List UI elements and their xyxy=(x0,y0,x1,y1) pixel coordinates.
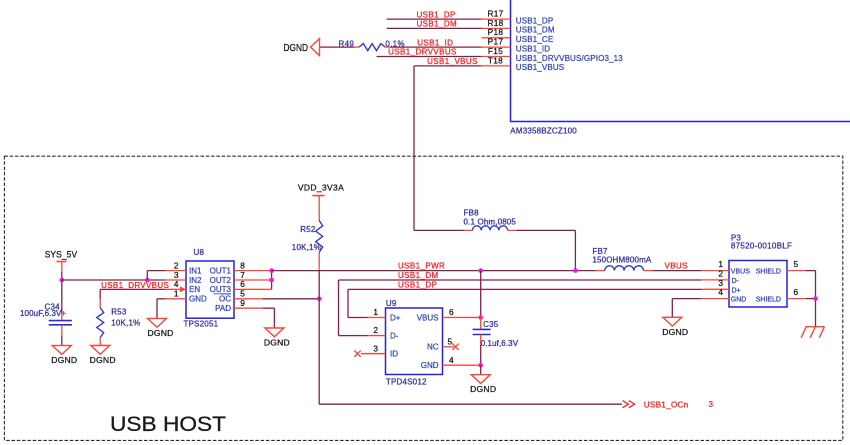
svg-text:2: 2 xyxy=(373,325,378,335)
svg-text:D-: D- xyxy=(390,331,399,340)
svg-text:TPD4S012: TPD4S012 xyxy=(386,377,427,386)
svg-text:USB1_ID: USB1_ID xyxy=(516,44,550,53)
svg-text:USB1_ID: USB1_ID xyxy=(417,38,453,47)
svg-text:0.1uf,6.3V: 0.1uf,6.3V xyxy=(481,339,519,348)
svg-text:USB1_VBUS: USB1_VBUS xyxy=(427,57,478,66)
svg-text:AM3358BZCZ100: AM3358BZCZ100 xyxy=(510,126,577,135)
svg-text:4: 4 xyxy=(449,355,454,365)
svg-text:NC: NC xyxy=(427,343,439,352)
svg-text:FB8: FB8 xyxy=(464,209,480,218)
svg-text:OUT1: OUT1 xyxy=(210,266,232,275)
svg-text:1: 1 xyxy=(373,307,378,317)
svg-text:9: 9 xyxy=(240,298,245,308)
svg-text:0.1%: 0.1% xyxy=(385,39,404,48)
svg-text:DGND: DGND xyxy=(51,355,77,365)
svg-text:SHIELD: SHIELD xyxy=(756,269,781,276)
svg-text:GND: GND xyxy=(189,295,207,304)
svg-text:U8: U8 xyxy=(194,248,205,257)
svg-text:VBUS: VBUS xyxy=(731,269,750,276)
svg-text:0.1 Ohm,0805: 0.1 Ohm,0805 xyxy=(464,217,517,226)
svg-text:USB1_CE: USB1_CE xyxy=(516,35,554,44)
svg-text:6: 6 xyxy=(794,287,799,297)
svg-text:DGND: DGND xyxy=(147,328,173,338)
svg-text:IN2: IN2 xyxy=(189,276,202,285)
svg-text:4: 4 xyxy=(718,287,723,297)
svg-text:C35: C35 xyxy=(483,320,499,329)
svg-text:USB1_DRVVBUS/GPIO3_13: USB1_DRVVBUS/GPIO3_13 xyxy=(516,54,623,63)
svg-text:ID: ID xyxy=(390,350,398,359)
svg-text:EN: EN xyxy=(189,285,200,294)
svg-text:USB1_DP: USB1_DP xyxy=(417,10,456,19)
svg-text:VBUS: VBUS xyxy=(417,313,439,322)
svg-text:USB1_DP: USB1_DP xyxy=(516,16,554,25)
svg-text:SYS_5V: SYS_5V xyxy=(45,249,77,259)
svg-text:USB1_DM: USB1_DM xyxy=(398,271,439,280)
svg-text:TPS2051: TPS2051 xyxy=(184,319,219,328)
svg-text:USB1_PWR: USB1_PWR xyxy=(398,262,445,271)
svg-text:1: 1 xyxy=(174,289,179,299)
svg-text:U9: U9 xyxy=(386,299,397,308)
svg-text:USB1_OCn: USB1_OCn xyxy=(644,400,689,409)
svg-text:6: 6 xyxy=(449,307,454,317)
svg-text:D+: D+ xyxy=(390,313,401,322)
svg-text:T18: T18 xyxy=(488,55,503,65)
svg-text:USB1_DM: USB1_DM xyxy=(516,26,555,35)
svg-text:10K,1%: 10K,1% xyxy=(111,318,140,327)
svg-text:VBUS: VBUS xyxy=(665,262,688,271)
svg-text:5: 5 xyxy=(448,336,453,346)
svg-text:DGND: DGND xyxy=(662,327,688,337)
svg-text:3: 3 xyxy=(709,400,714,409)
svg-text:R49: R49 xyxy=(339,39,355,48)
svg-text:USB HOST: USB HOST xyxy=(110,413,226,436)
svg-text:IN1: IN1 xyxy=(189,266,202,275)
svg-text:VDD_3V3A: VDD_3V3A xyxy=(298,183,344,193)
svg-text:87520-0010BLF: 87520-0010BLF xyxy=(731,242,792,251)
svg-text:DGND: DGND xyxy=(264,338,290,348)
svg-text:OUT2: OUT2 xyxy=(210,276,232,285)
svg-text:100uF,6.3V: 100uF,6.3V xyxy=(20,309,62,318)
svg-text:R52: R52 xyxy=(300,225,316,234)
svg-text:3: 3 xyxy=(373,343,378,353)
svg-text:OC: OC xyxy=(219,295,231,304)
svg-text:10K,1%: 10K,1% xyxy=(292,243,321,252)
svg-text:OUT3: OUT3 xyxy=(210,285,232,294)
svg-text:5: 5 xyxy=(794,259,799,269)
svg-text:R53: R53 xyxy=(111,308,127,317)
svg-text:USB1_DRVVBUS: USB1_DRVVBUS xyxy=(388,48,457,57)
svg-text:D-: D- xyxy=(732,278,740,285)
svg-text:USB1_VBUS: USB1_VBUS xyxy=(516,63,564,72)
svg-text:DGND: DGND xyxy=(284,43,309,54)
svg-text:150OHM800mA: 150OHM800mA xyxy=(592,256,652,265)
svg-text:USB1_DP: USB1_DP xyxy=(398,280,437,289)
svg-text:DGND: DGND xyxy=(470,384,496,394)
svg-text:D+: D+ xyxy=(732,287,741,294)
svg-text:SHIELD: SHIELD xyxy=(756,297,781,304)
svg-text:GND: GND xyxy=(731,297,747,304)
svg-text:USB1_DM: USB1_DM xyxy=(417,20,458,29)
svg-text:PAD: PAD xyxy=(215,304,231,313)
svg-text:GND: GND xyxy=(421,361,439,370)
svg-text:DGND: DGND xyxy=(90,355,116,365)
